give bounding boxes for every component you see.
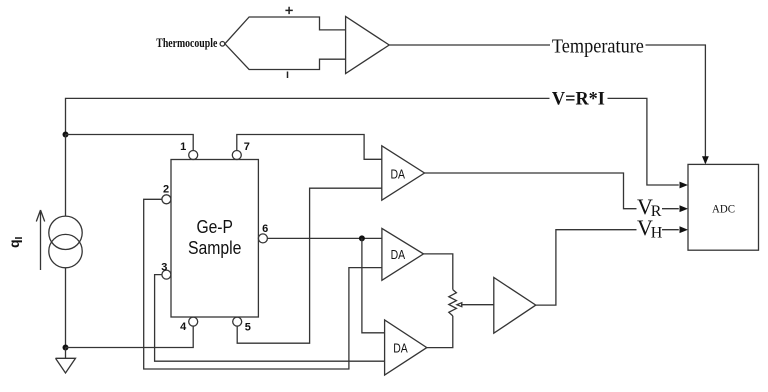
wire DA3 output to potentiometer bottom bbox=[427, 316, 453, 348]
svg-text:Thermocouple: Thermocouple bbox=[156, 36, 217, 50]
wire pin 2 to DA2 lower input bbox=[144, 199, 382, 369]
potentiometer wiper arrow bbox=[457, 303, 494, 307]
wire ground to pin 4 bbox=[66, 326, 194, 347]
svg-text:1: 1 bbox=[180, 141, 186, 153]
ground bbox=[56, 348, 76, 374]
svg-text:5: 5 bbox=[245, 321, 251, 333]
op-amp DA2 bbox=[382, 228, 424, 280]
junction dot node H bbox=[359, 235, 365, 241]
op-amp DA3 bbox=[385, 320, 427, 375]
svg-text:Temperature: Temperature bbox=[552, 36, 644, 58]
arrowhead ADC input 3 bbox=[680, 226, 689, 233]
wire VR to ADC input 2 bbox=[662, 208, 679, 210]
wire V=R*I to ADC input 1 bbox=[608, 98, 679, 185]
wire pin 3 to DA3 lower input bbox=[155, 275, 385, 362]
pin 2 bbox=[162, 195, 171, 204]
wire current source to ground dot bbox=[65, 268, 67, 348]
wire dot to pin 1 bbox=[66, 135, 194, 152]
node VH bbox=[637, 215, 663, 241]
svg-text:4: 4 bbox=[180, 321, 187, 333]
svg-text:ADC: ADC bbox=[712, 202, 735, 216]
label qI bbox=[6, 236, 25, 248]
thermocouple terminal circle bbox=[220, 42, 225, 47]
svg-text:Sample: Sample bbox=[188, 238, 242, 258]
junction dot ground node bbox=[63, 345, 69, 351]
arrowhead into ADC top bbox=[702, 156, 709, 164]
wire U1 output to Temperature bbox=[389, 44, 550, 46]
pin 3 bbox=[162, 270, 171, 279]
op-amp DA1 bbox=[382, 146, 425, 200]
node VR bbox=[637, 194, 662, 220]
svg-text:2: 2 bbox=[163, 183, 169, 195]
svg-text:Ge-P: Ge-P bbox=[196, 217, 233, 237]
pin 6 bbox=[258, 234, 267, 243]
op-amp U1 (thermocouple amplifier) bbox=[346, 17, 390, 74]
current source Q (left rail upper wire) bbox=[65, 135, 67, 217]
plus polarity mark bbox=[285, 7, 292, 14]
op-amp U2 (output buffer) bbox=[494, 278, 536, 334]
wire node H to DA3 upper input bbox=[362, 238, 385, 332]
pin 5 bbox=[233, 317, 242, 326]
current source circle lower bbox=[49, 234, 82, 267]
ADC box bbox=[688, 164, 759, 250]
potentiometer R1 bbox=[449, 290, 457, 316]
junction dot top of current source bbox=[63, 132, 69, 138]
wire V=R*I sense line bbox=[66, 98, 550, 134]
svg-text:V=R*I: V=R*I bbox=[552, 89, 605, 110]
current direction arrow bbox=[36, 210, 44, 270]
sample box Ge-P bbox=[171, 160, 258, 318]
label Ge-P Sample bbox=[188, 217, 242, 258]
svg-text:DA: DA bbox=[393, 341, 408, 356]
svg-text:H: H bbox=[651, 224, 663, 241]
wire VH to ADC input 3 bbox=[662, 229, 679, 231]
svg-text:DA: DA bbox=[391, 166, 406, 181]
wire U2 output to VH bbox=[536, 230, 637, 305]
current source circle upper bbox=[49, 216, 82, 249]
pin 1 bbox=[189, 151, 198, 160]
svg-text:3: 3 bbox=[161, 262, 167, 274]
wire DA2 output to potentiometer top bbox=[424, 254, 453, 290]
svg-text:6: 6 bbox=[262, 223, 268, 235]
svg-text:qI: qI bbox=[6, 236, 25, 248]
arrowhead ADC input 1 bbox=[680, 182, 689, 189]
svg-text:7: 7 bbox=[244, 141, 250, 153]
pin 4 bbox=[189, 317, 198, 326]
minus polarity mark bbox=[287, 72, 289, 79]
wire pin 5 to DA1 lower input bbox=[237, 188, 382, 343]
wire DA1 output to VR bbox=[425, 173, 637, 209]
svg-text:DA: DA bbox=[391, 247, 406, 262]
wire pin 6 to DA2 upper input bbox=[267, 237, 382, 239]
wire Temperature to ADC top bbox=[646, 45, 706, 163]
wire pin 7 to DA1 upper input bbox=[237, 135, 382, 160]
arrowhead ADC input 2 bbox=[680, 205, 689, 212]
pin 7 bbox=[232, 151, 241, 160]
thermocouple TC1 body bbox=[225, 17, 346, 70]
